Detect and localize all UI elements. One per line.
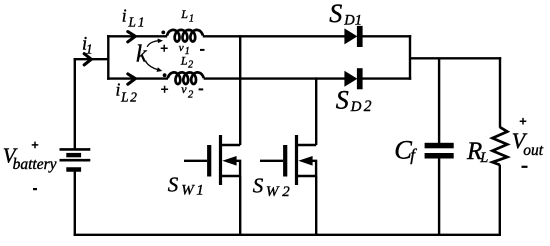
label v2 plus [161, 86, 168, 93]
svg-text:out: out [523, 142, 544, 159]
svg-text:1: 1 [196, 183, 204, 199]
svg-text:D: D [350, 99, 362, 115]
svg-text:v: v [179, 42, 184, 54]
wire: top rail L1 to SD1 [203, 35, 345, 37]
wire: second rail to L2 [107, 77, 168, 79]
label Vout [512, 128, 544, 159]
svg-text:battery: battery [13, 156, 57, 173]
wire: left vertical above battery [74, 58, 76, 149]
svg-text:2: 2 [188, 90, 194, 101]
wire: SW1 drain vertical [239, 35, 241, 145]
node A: input split vertical [107, 35, 109, 80]
inductor L1 [167, 30, 203, 42]
label SD1 [329, 0, 362, 29]
k coupling arrow to L2 dot [146, 62, 159, 71]
label v2 [181, 82, 194, 101]
dot marker L1 [161, 31, 165, 35]
wire: SW2 drain vertical [315, 77, 317, 145]
transistor Q SW2 [260, 135, 316, 185]
diode SD2 [344, 68, 362, 89]
svg-text:v: v [181, 82, 187, 96]
label iL2 [116, 80, 138, 105]
svg-text:1: 1 [355, 13, 362, 29]
wire: bottom rail [74, 234, 501, 236]
wire: top rail to L1 [107, 35, 167, 37]
svg-text:W: W [181, 183, 195, 199]
label Vout plus [520, 118, 527, 125]
label RL [466, 138, 488, 166]
svg-text:L: L [128, 14, 136, 29]
inductor L2 [168, 72, 204, 84]
label i1 [82, 34, 93, 56]
label SD2 [336, 86, 372, 115]
label v1 plus [161, 45, 168, 52]
svg-text:L: L [120, 90, 128, 105]
arrow iL1 on top rail [128, 32, 136, 42]
wire: Cf branch top [438, 58, 440, 143]
label SW1 [168, 172, 204, 198]
arrow iL2 on second rail [128, 74, 136, 84]
label SW2 [253, 174, 290, 200]
svg-text:S: S [336, 86, 349, 115]
svg-text:1: 1 [86, 41, 93, 56]
wire: second rail L2 to SD2 [204, 77, 346, 79]
label v1 [179, 42, 190, 57]
wire: RL branch top [499, 57, 501, 128]
svg-text:1: 1 [185, 46, 190, 57]
label L1 [180, 7, 194, 24]
diode SD1 [344, 26, 362, 47]
wire: Cf branch bottom [438, 158, 440, 236]
label v1 minus [200, 49, 205, 51]
k coupling arrow to L1 dot [147, 41, 159, 47]
wire: RL branch bottom [499, 165, 501, 236]
svg-text:L: L [180, 7, 188, 21]
svg-text:S: S [253, 174, 264, 198]
svg-text:L: L [479, 150, 488, 166]
svg-text:W: W [266, 184, 280, 200]
arrow i1 on input wire [84, 54, 91, 65]
label v2 minus [199, 88, 204, 90]
svg-text:1: 1 [189, 14, 194, 25]
svg-text:D: D [343, 13, 355, 29]
svg-text:f: f [410, 146, 417, 165]
wire: SW2 source vertical [315, 176, 317, 235]
battery Vbattery [60, 149, 91, 169]
svg-text:k: k [136, 42, 147, 68]
wire: SW1 source vertical [239, 176, 241, 235]
svg-text:S: S [329, 0, 342, 28]
label Vbattery [3, 143, 57, 173]
wire: left vertical below battery [74, 168, 76, 236]
svg-text:2: 2 [188, 59, 193, 70]
capacitor Cf [425, 143, 454, 159]
label Vbattery plus [32, 142, 39, 149]
svg-text:2: 2 [364, 98, 372, 115]
svg-text:2: 2 [130, 90, 137, 105]
wire: input horizontal from battery top to split node [74, 58, 109, 60]
svg-text:S: S [168, 172, 179, 196]
resistor RL [492, 127, 507, 165]
label Vout minus [522, 166, 528, 168]
node B: diode output junction vertical [409, 35, 411, 80]
svg-text:i: i [116, 80, 121, 100]
label Cf [394, 135, 417, 165]
label Vbattery minus [33, 188, 37, 190]
dot marker L2 [163, 73, 167, 77]
wire: second rail SD2 to junction [362, 77, 411, 79]
wire: top rail SD1 to junction [362, 35, 411, 37]
svg-text:2: 2 [282, 184, 290, 200]
svg-text:1: 1 [138, 14, 145, 29]
label k [136, 42, 147, 68]
svg-text:i: i [122, 6, 127, 26]
label L2 [180, 54, 193, 71]
wire: output rail to load [410, 57, 501, 59]
transistor Q SW1 [184, 135, 240, 185]
label iL1 [122, 6, 145, 30]
